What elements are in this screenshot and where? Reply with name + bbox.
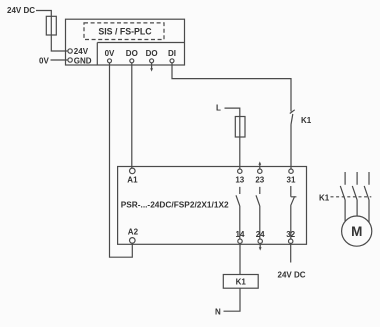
wire coil K1 to N	[224, 288, 241, 311]
contact 13-14 (NO)	[236, 187, 240, 239]
svg-text:0V: 0V	[39, 56, 49, 65]
terminal A1	[130, 168, 136, 174]
terminal A2	[130, 238, 136, 244]
terminal 24V on PLC	[68, 49, 72, 53]
contactor K1 phase 2 (NO)	[352, 172, 357, 217]
svg-text:PSR-...-24DC/FSP2/2X1/1X2: PSR-...-24DC/FSP2/2X1/1X2	[121, 200, 229, 210]
svg-text:DO: DO	[126, 49, 138, 58]
contact 23-24 (NO)	[256, 187, 260, 239]
stub terminal 24	[259, 243, 261, 248]
svg-text:24V DC: 24V DC	[7, 6, 35, 15]
terminal GND on PLC	[68, 58, 72, 62]
svg-text:K1: K1	[236, 278, 247, 287]
terminal 32	[289, 239, 293, 243]
svg-text:24V DC: 24V DC	[278, 271, 306, 280]
svg-text:14: 14	[236, 230, 245, 239]
relay coil K1	[223, 275, 258, 289]
wire relay terminal 32 to 24V DC	[290, 243, 292, 262]
contact 31-32 (NC)	[291, 186, 297, 239]
terminal 13	[238, 169, 242, 173]
svg-text:A2: A2	[128, 228, 139, 237]
wire PLC DI to contact K1	[172, 63, 291, 112]
svg-text:DO: DO	[146, 49, 158, 58]
svg-text:SIS / FS-PLC: SIS / FS-PLC	[98, 27, 152, 37]
motor M	[342, 216, 372, 246]
svg-text:M: M	[351, 224, 362, 239]
wire PLC 0V to relay A2	[110, 63, 133, 257]
svg-text:31: 31	[287, 175, 296, 184]
svg-text:23: 23	[255, 175, 264, 184]
PLC U1 box	[66, 19, 185, 65]
terminal 31	[289, 169, 293, 173]
wire relay terminal 14 to coil K1	[239, 243, 241, 274]
svg-text:24: 24	[256, 230, 265, 239]
terminal 23	[258, 169, 262, 173]
svg-text:K1: K1	[319, 194, 330, 203]
svg-text:A1: A1	[127, 175, 138, 184]
svg-text:GND: GND	[74, 56, 92, 65]
PLC U1 label SIS / FS-PLC	[84, 23, 164, 40]
fuse F2	[235, 117, 245, 138]
wire 24V DC supply to fuse F1 to terminal 24V	[36, 11, 67, 52]
fuse F1	[46, 16, 56, 35]
svg-text:32: 32	[286, 230, 295, 239]
svg-text:N: N	[215, 308, 221, 317]
wire contact K1 to relay terminal 31	[290, 125, 292, 169]
wire PLC DO 1 to relay A1	[131, 63, 133, 168]
relay U2 box	[118, 167, 307, 245]
svg-text:K1: K1	[301, 116, 312, 125]
stub terminal 23	[259, 165, 261, 169]
wire 0V to terminal GND	[51, 59, 68, 61]
terminal 24	[258, 239, 262, 243]
svg-text:0V: 0V	[105, 49, 115, 58]
contact K1 feedback (NO)	[290, 110, 295, 125]
svg-text:L: L	[216, 104, 221, 113]
stub PLC DO 2	[151, 63, 153, 69]
svg-text:DI: DI	[168, 49, 176, 58]
wire L through fuse F2 to relay terminal 13	[225, 108, 240, 169]
terminal 14	[238, 239, 242, 243]
contactor K1 phase 1 (NO)	[340, 172, 345, 222]
svg-text:13: 13	[235, 175, 244, 184]
svg-text:24V: 24V	[74, 47, 89, 56]
contactor K1 phase 3 (NO)	[364, 172, 369, 223]
